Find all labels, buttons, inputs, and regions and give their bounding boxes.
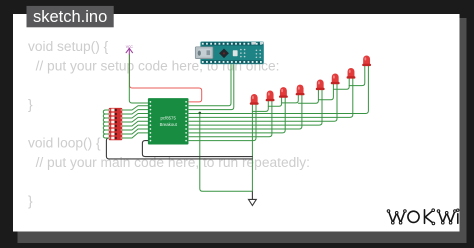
svg-text:}: } [28, 97, 33, 112]
wire LED2-cathode-chain [252, 101, 268, 112]
wire P7-anode [189, 66, 368, 114]
wire DIP3-PCF [122, 114, 149, 118]
wire DIP-loop4 [103, 122, 109, 126]
usb connector [195, 47, 213, 59]
wire DIP1-PCF [122, 106, 149, 110]
svg-text:void loop() {: void loop() { [28, 136, 101, 151]
svg-text:VCC: VCC [126, 45, 134, 49]
ground [249, 192, 257, 206]
svg-text:Breakout: Breakout [160, 122, 178, 127]
wire LED5-cathode-chain [298, 90, 318, 104]
wire LED7-cathode-chain [333, 78, 349, 89]
wire P3-anode [189, 95, 302, 129]
wire SCL [189, 64, 234, 110]
wire P4-anode [189, 90, 322, 125]
wire LED3-cathode-chain [268, 98, 281, 107]
wire PCF-gnd-branch [200, 113, 253, 192]
wire SDA [189, 64, 231, 106]
mcu U2 Arduino Nano [195, 42, 263, 64]
svg-text:// put your main code here, to: // put your main code here, to run repea… [36, 155, 310, 170]
wire VCC-red [130, 55, 202, 102]
ic U1 pcf8575 Breakout [148, 98, 189, 144]
led D6 [331, 74, 340, 85]
wire DIP-loop7 [103, 134, 109, 138]
led D5 [316, 79, 325, 90]
chip diamond [219, 49, 229, 59]
wire DIP-loop6 [103, 130, 109, 134]
wire VCC-to-PCF [129, 54, 149, 103]
wire LED6-cathode-chain [318, 84, 333, 100]
wire DIP-loop2 [103, 114, 109, 118]
node wokwi-logo [387, 209, 459, 225]
wire P2-anode [189, 98, 285, 133]
led D2 [266, 91, 275, 102]
node gnd-junction [199, 112, 202, 115]
wire DIP-loop5 [103, 126, 109, 130]
wire DIP8-PCF [122, 133, 149, 138]
wire DIP-loop3 [103, 118, 109, 122]
switch SW1 DIP-8 [109, 108, 122, 140]
wire P1-anode [189, 101, 272, 137]
wire DIP7-PCF [122, 129, 149, 134]
node sketch-tab [27, 6, 114, 27]
wire LED4-cathode-chain [282, 95, 299, 103]
led D4 [296, 85, 305, 96]
svg-text:void setup() {: void setup() { [28, 39, 109, 54]
wire LED8-cathode-chain [349, 66, 365, 86]
wire PCF-gnd [142, 141, 252, 157]
power VCC [126, 48, 132, 54]
wire DIP5-PCF [122, 121, 149, 126]
svg-text:}: } [28, 194, 33, 209]
wire P0-anode [189, 104, 256, 140]
svg-text:pcf8575: pcf8575 [161, 116, 177, 121]
led D3 [279, 87, 288, 98]
wire DIP6-PCF [122, 125, 149, 130]
led D7 [347, 68, 356, 79]
svg-text:sketch.ino: sketch.ino [33, 8, 107, 26]
wire DIP-gnd [106, 138, 252, 159]
wire P6-anode [189, 78, 353, 117]
wire DIP-loop1 [103, 110, 109, 114]
wire P5-anode [189, 84, 337, 121]
led D1 [250, 94, 259, 105]
wire DIP4-PCF [122, 117, 149, 122]
led D8 [362, 55, 371, 66]
wire LED1-cathode-to-gnd [251, 104, 253, 191]
wire DIP2-PCF [122, 110, 149, 114]
